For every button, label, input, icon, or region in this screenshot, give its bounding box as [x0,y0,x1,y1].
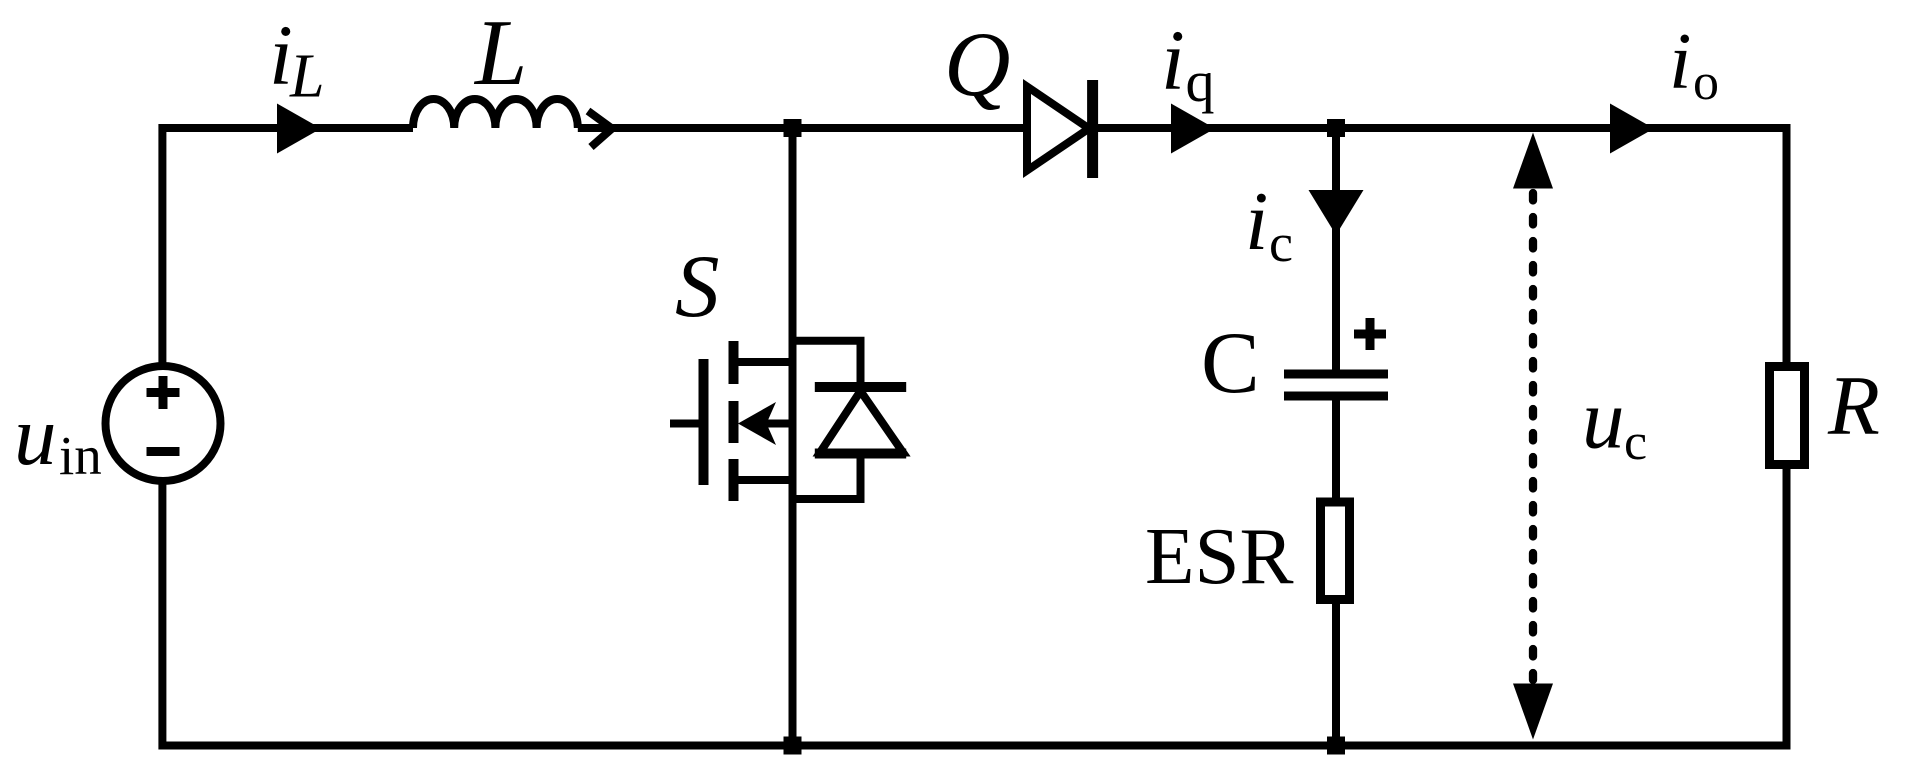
body diode branch lower wire [793,457,861,499]
body diode branch upper wire [793,341,861,383]
node: bottom wire / capacitor junction [1327,737,1345,755]
voltage source plus sign [147,376,180,409]
svg-text:ESR: ESR [1145,511,1294,601]
resistor R body [1770,367,1805,465]
svg-text:c: c [1624,414,1647,471]
MOSFET S gate bar [699,359,709,485]
arrow i_c [1309,190,1364,235]
wire: resistor R to bottom wire, bottom wire, left vertical lower [162,469,1786,746]
voltage source minus sign [147,447,180,456]
wire: capacitor branch upper [1332,128,1340,374]
svg-text:L: L [289,43,324,111]
MOSFET S channel bar segments [729,341,739,501]
svg-text:S: S [675,238,720,336]
body diode triangle [820,391,903,453]
u_c dashed measurement line [1529,193,1537,680]
arrow i_o [1610,104,1654,154]
svg-text:u: u [14,389,57,483]
node: top wire / capacitor junction [1327,119,1345,137]
voltage source u_in circle [106,366,221,481]
arrow u_c bottom [1513,684,1553,740]
diode Q cathode bar [1087,80,1098,178]
svg-text:L: L [473,1,527,105]
capacitor C bottom plate [1284,392,1388,401]
arrow i_L [277,104,321,154]
MOSFET S gate lead [670,420,699,428]
arrow u_c top [1513,133,1553,189]
wire: left vertical + top wire to inductor [162,128,413,368]
resistor ESR body [1321,502,1350,600]
wire: inductor to diode Q [578,124,1024,132]
svg-text:in: in [59,425,102,486]
svg-text:i: i [1245,175,1268,268]
node: top wire / MOSFET junction [784,119,802,137]
capacitor C polarity plus sign [1354,318,1386,350]
node: bottom wire / MOSFET junction [784,737,802,755]
capacitor C top plate [1284,370,1388,379]
arrow i_q [1171,104,1215,154]
diode Q triangle [1027,87,1089,171]
MOSFET S drain lead [734,358,793,366]
body diode cathode bar [815,382,906,392]
wire: MOSFET branch vertical [789,128,797,746]
MOSFET S body lead [760,420,793,428]
svg-text:Q: Q [944,13,1010,115]
svg-text:R: R [1827,359,1880,453]
wire: inductor arrow chevron [588,111,612,147]
svg-text:i: i [1669,16,1692,106]
svg-text:q: q [1186,49,1215,114]
wire: capacitor branch lower through ESR [1332,396,1340,746]
inductor L [413,99,578,128]
MOSFET S source lead [734,476,793,484]
body diode anode bar [815,449,906,459]
svg-text:u: u [1582,373,1625,467]
svg-text:i: i [1161,12,1185,108]
MOSFET S body arrow [738,402,776,445]
svg-text:o: o [1693,54,1719,111]
svg-text:c: c [1269,213,1293,273]
wire: diode Q to top-right corner and down to resistor R [1098,128,1787,362]
svg-text:C: C [1201,315,1260,412]
